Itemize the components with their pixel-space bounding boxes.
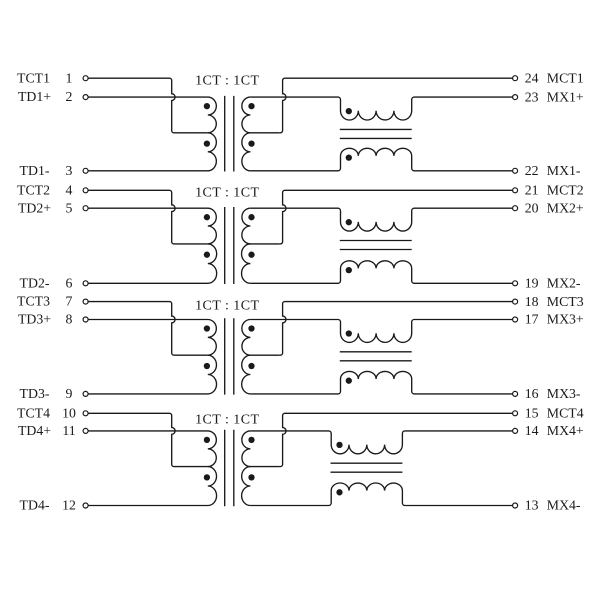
svg-text:TCT1: TCT1 xyxy=(17,70,50,85)
svg-text:MX4+: MX4+ xyxy=(547,423,584,438)
transformer T1 primary lower winding with TD1- wire (pin 3) xyxy=(88,133,216,171)
polarity dot L3 upper winding xyxy=(346,330,352,336)
pin 14 terminal xyxy=(513,428,518,433)
svg-text:8: 8 xyxy=(66,312,73,327)
transformer T3 secondary upper winding xyxy=(242,320,279,356)
polarity dot T1 secondary lower xyxy=(248,140,254,146)
svg-text:TCT4: TCT4 xyxy=(17,405,50,420)
svg-text:7: 7 xyxy=(66,294,73,309)
svg-text:13: 13 xyxy=(525,498,539,513)
svg-text:20: 20 xyxy=(525,200,539,215)
svg-text:16: 16 xyxy=(525,386,539,401)
pin 7 terminal xyxy=(83,299,88,304)
wire T2 secondary center tap to pin 21 (MCT2) (hops over MX2+ wire) xyxy=(279,190,512,244)
pin 20 terminal xyxy=(513,206,518,211)
polarity dot T1 secondary upper xyxy=(248,103,254,109)
transformer T1 secondary upper winding xyxy=(242,97,279,133)
svg-text:15: 15 xyxy=(525,406,539,421)
transformer T3 core xyxy=(225,318,234,394)
polarity dot L4 lower winding xyxy=(336,489,342,495)
common-mode choke L2 upper winding with wire to pin 20 (MX2+) xyxy=(250,208,512,231)
transformer T4 primary upper winding with TD4+ wire (pin 11) xyxy=(88,431,216,467)
svg-text:19: 19 xyxy=(525,276,539,291)
pin 24 terminal xyxy=(513,76,518,81)
svg-text:TD3-: TD3- xyxy=(20,386,50,401)
svg-text:MCT2: MCT2 xyxy=(547,183,584,198)
common-mode choke L1 lower winding with wire to pin 22 (MX1-) xyxy=(250,148,512,171)
pin 1 terminal xyxy=(83,76,88,81)
svg-text:1CT : 1CT: 1CT : 1CT xyxy=(195,413,259,428)
svg-text:10: 10 xyxy=(62,405,76,420)
svg-text:12: 12 xyxy=(62,498,76,513)
pin 21 terminal xyxy=(513,188,518,193)
transformer T1 secondary lower winding xyxy=(242,133,251,171)
transformer T3 secondary lower winding xyxy=(242,355,251,394)
common-mode choke L2 core xyxy=(340,241,412,250)
pin 6 terminal xyxy=(83,281,88,286)
polarity dot T1 primary upper xyxy=(204,103,210,109)
polarity dot T3 secondary lower xyxy=(248,363,254,369)
polarity dot T3 primary lower xyxy=(204,363,210,369)
polarity dot T2 secondary lower xyxy=(248,252,254,258)
common-mode choke L1 upper winding with wire to pin 23 (MX1+) xyxy=(250,97,512,120)
svg-text:1CT : 1CT: 1CT : 1CT xyxy=(195,73,259,88)
common-mode choke L3 lower winding with wire to pin 16 (MX3-) xyxy=(250,371,512,394)
polarity dot T4 secondary lower xyxy=(248,474,254,480)
pin 19 terminal xyxy=(513,281,518,286)
polarity dot T3 secondary upper xyxy=(248,325,254,331)
svg-text:TD1+: TD1+ xyxy=(18,89,51,104)
transformer T2 secondary lower winding xyxy=(242,244,251,283)
pin 18 terminal xyxy=(513,299,518,304)
pin 2 terminal xyxy=(83,95,88,100)
common-mode choke L3 core xyxy=(340,352,412,361)
svg-text:TCT3: TCT3 xyxy=(17,294,50,309)
svg-text:MX1+: MX1+ xyxy=(547,89,584,104)
common-mode choke L4 core xyxy=(331,463,403,472)
svg-text:3: 3 xyxy=(66,163,73,178)
wire T4 secondary center tap to pin 15 (MCT4) (hops over MX4+ wire) xyxy=(279,413,512,466)
common-mode choke L1 core xyxy=(340,129,412,138)
polarity dot T4 primary lower xyxy=(204,474,210,480)
svg-text:MX4-: MX4- xyxy=(547,498,581,513)
common-mode choke L3 upper winding with wire to pin 17 (MX3+) xyxy=(250,320,512,343)
polarity dot L1 lower winding xyxy=(346,154,352,160)
transformer T2 secondary upper winding xyxy=(242,208,279,244)
polarity dot L2 upper winding xyxy=(346,219,352,225)
svg-text:TD4-: TD4- xyxy=(20,498,50,513)
wire T1 secondary center tap to pin 24 (MCT1) (hops over MX1+ wire) xyxy=(279,78,512,133)
transformer T4 core xyxy=(225,430,234,507)
polarity dot L3 lower winding xyxy=(346,378,352,384)
pin 22 terminal xyxy=(513,168,518,173)
polarity dot L4 upper winding xyxy=(336,442,342,448)
svg-text:MX1-: MX1- xyxy=(547,163,581,178)
pin 12 terminal xyxy=(83,503,88,508)
svg-text:MCT4: MCT4 xyxy=(547,406,584,421)
wire pin 10 (TCT4) to T4 primary center tap (hops over TD4+ wire) xyxy=(88,413,208,466)
svg-text:TD2-: TD2- xyxy=(20,275,50,290)
svg-text:MX2+: MX2+ xyxy=(547,200,584,215)
svg-text:TCT2: TCT2 xyxy=(17,182,50,197)
svg-text:MX3-: MX3- xyxy=(547,386,581,401)
transformer T2 primary lower winding with TD2- wire (pin 6) xyxy=(88,244,216,283)
polarity dot T1 primary lower xyxy=(204,140,210,146)
transformer T1 primary upper winding with TD1+ wire (pin 2) xyxy=(88,97,216,133)
svg-text:17: 17 xyxy=(525,312,539,327)
transformer T1 core xyxy=(225,96,234,172)
svg-text:TD2+: TD2+ xyxy=(18,200,51,215)
polarity dot L1 upper winding xyxy=(346,108,352,114)
svg-text:21: 21 xyxy=(525,183,539,198)
svg-text:TD3+: TD3+ xyxy=(18,312,51,327)
polarity dot L2 lower winding xyxy=(346,267,352,273)
svg-text:9: 9 xyxy=(66,386,73,401)
svg-text:TD1-: TD1- xyxy=(20,163,50,178)
polarity dot T2 primary upper xyxy=(204,214,210,220)
polarity dot T4 primary upper xyxy=(204,437,210,443)
polarity dot T2 secondary upper xyxy=(248,214,254,220)
pin 13 terminal xyxy=(513,503,518,508)
svg-text:MX3+: MX3+ xyxy=(547,312,584,327)
pin 11 terminal xyxy=(83,428,88,433)
pin 4 terminal xyxy=(83,188,88,193)
svg-text:1CT : 1CT: 1CT : 1CT xyxy=(195,186,259,201)
svg-text:MCT1: MCT1 xyxy=(547,70,584,85)
svg-text:23: 23 xyxy=(525,89,539,104)
polarity dot T3 primary upper xyxy=(204,325,210,331)
polarity dot T4 secondary upper xyxy=(248,437,254,443)
pin 16 terminal xyxy=(513,391,518,396)
pin 3 terminal xyxy=(83,168,88,173)
pin 15 terminal xyxy=(513,411,518,416)
wire pin 1 (TCT1) to T1 primary center tap (hops over TD1+ wire) xyxy=(88,78,208,133)
transformer T3 primary lower winding with TD3- wire (pin 9) xyxy=(88,355,216,394)
svg-text:1: 1 xyxy=(66,70,73,85)
transformer T4 primary lower winding with TD4- wire (pin 12) xyxy=(88,467,216,506)
wire T3 secondary center tap to pin 18 (MCT3) (hops over MX3+ wire) xyxy=(279,302,512,356)
svg-text:MX2-: MX2- xyxy=(547,276,581,291)
svg-text:14: 14 xyxy=(525,423,539,438)
common-mode choke L4 upper winding with wire to pin 14 (MX4+) xyxy=(250,431,512,454)
transformer T2 core xyxy=(225,207,234,284)
pin 23 terminal xyxy=(513,95,518,100)
pin 17 terminal xyxy=(513,317,518,322)
transformer T3 primary upper winding with TD3+ wire (pin 8) xyxy=(88,320,216,356)
svg-text:TD4+: TD4+ xyxy=(18,423,51,438)
svg-text:5: 5 xyxy=(66,200,73,215)
svg-text:6: 6 xyxy=(66,275,73,290)
svg-text:4: 4 xyxy=(66,182,73,197)
svg-text:11: 11 xyxy=(62,423,75,438)
svg-text:1CT : 1CT: 1CT : 1CT xyxy=(195,298,259,313)
wire pin 7 (TCT3) to T3 primary center tap (hops over TD3+ wire) xyxy=(88,302,208,356)
pin 10 terminal xyxy=(83,411,88,416)
pin 5 terminal xyxy=(83,206,88,211)
wire pin 4 (TCT2) to T2 primary center tap (hops over TD2+ wire) xyxy=(88,190,208,244)
transformer T2 primary upper winding with TD2+ wire (pin 5) xyxy=(88,208,216,244)
common-mode choke L2 lower winding with wire to pin 19 (MX2-) xyxy=(250,261,512,284)
svg-text:2: 2 xyxy=(66,89,73,104)
pin 8 terminal xyxy=(83,317,88,322)
polarity dot T2 primary lower xyxy=(204,252,210,258)
common-mode choke L4 lower winding with wire to pin 13 (MX4-) xyxy=(250,483,512,506)
svg-text:18: 18 xyxy=(525,294,539,309)
svg-text:MCT3: MCT3 xyxy=(547,294,584,309)
svg-text:22: 22 xyxy=(525,163,539,178)
transformer T4 secondary upper winding xyxy=(242,431,279,467)
transformer T4 secondary lower winding xyxy=(242,467,251,506)
svg-text:24: 24 xyxy=(525,70,539,85)
pin 9 terminal xyxy=(83,391,88,396)
